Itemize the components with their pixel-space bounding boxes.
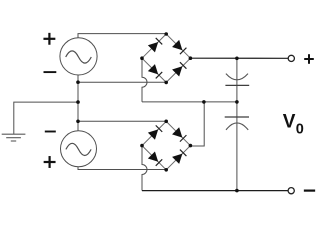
wire upper bridge left vertex down with hop over AC wire, to mid node <box>142 58 147 102</box>
junction upper bridge top vertex <box>164 32 168 36</box>
junction upper bridge right vertex <box>189 56 193 60</box>
junction lower bridge right vertex <box>189 144 193 148</box>
label - of output <box>304 190 315 192</box>
wire lower bridge right vertex up to mid node <box>190 102 204 146</box>
diode DB1 (left-to-top edge) <box>148 129 158 139</box>
junction mid wire / lower bridge branch <box>202 100 206 104</box>
junction bottom rail / capacitor C2 <box>235 189 239 193</box>
junction common rail / upper AC wire <box>76 80 80 84</box>
diode DB3 (left-to-bottom edge) <box>148 151 158 161</box>
diode DA3 (left-to-bottom edge) <box>148 64 158 74</box>
label - of lower source <box>45 131 56 133</box>
junction upper bridge bottom vertex <box>164 81 168 85</box>
wire lower bridge left vertex down with hop, to bottom rail <box>142 146 147 191</box>
label + of upper source <box>43 38 55 40</box>
AC source V1 (upper) <box>60 38 97 75</box>
junction common rail / lower bridge wire <box>76 120 80 124</box>
wire top output rail to + terminal <box>190 57 288 59</box>
wire bottom output rail to - terminal <box>142 190 288 192</box>
svg-text:V: V <box>283 112 296 133</box>
svg-text:0: 0 <box>296 122 304 138</box>
wire from common rail to upper bridge bottom vertex <box>78 81 166 83</box>
label - of upper source <box>44 71 57 73</box>
capacitor C1 curved plate <box>226 74 248 80</box>
junction common rail / ground wire <box>76 100 80 104</box>
wire common vertical rail from upper source bottom to lower source top <box>77 75 79 131</box>
diode DA1 (left-to-top edge) <box>148 42 158 52</box>
AC source V2 (lower) <box>61 131 97 167</box>
capacitor C1 straight plate <box>225 84 249 86</box>
junction top rail / capacitor C1 <box>235 57 239 61</box>
label + of lower source <box>44 161 56 163</box>
output terminal - (open circle) <box>288 188 294 194</box>
junction lower bridge top vertex <box>164 120 168 124</box>
bridge B diamond edges <box>142 121 190 169</box>
output terminal + (open circle) <box>288 55 294 61</box>
wire capacitor chain vertical <box>236 58 238 190</box>
capacitor C2 curved plate <box>226 123 248 130</box>
junction mid node capacitors <box>235 100 239 104</box>
junction lower bridge left vertex <box>140 144 144 148</box>
wire mid node horizontal to capacitor junction <box>142 101 237 103</box>
diode DA4 (bottom-to-right edge) <box>172 66 182 76</box>
bridge A diamond edges <box>142 34 190 82</box>
wire from common rail to lower bridge top vertex <box>78 120 166 122</box>
wire from lower source bottom to lower bridge bottom vertex <box>78 167 166 170</box>
wire from common rail to ground <box>14 102 78 134</box>
label + of output <box>304 58 314 60</box>
diode DB4 (bottom-to-right edge) <box>172 154 182 164</box>
junction lower bridge bottom vertex <box>164 168 168 172</box>
wire from upper source top to upper bridge top <box>78 34 166 38</box>
capacitor C2 straight plate <box>225 116 249 118</box>
diode DA2 (top-to-right edge) <box>172 40 182 50</box>
diode DB2 (top-to-right edge) <box>172 127 182 137</box>
junction upper bridge left vertex <box>140 56 144 60</box>
ground symbol <box>2 133 26 135</box>
